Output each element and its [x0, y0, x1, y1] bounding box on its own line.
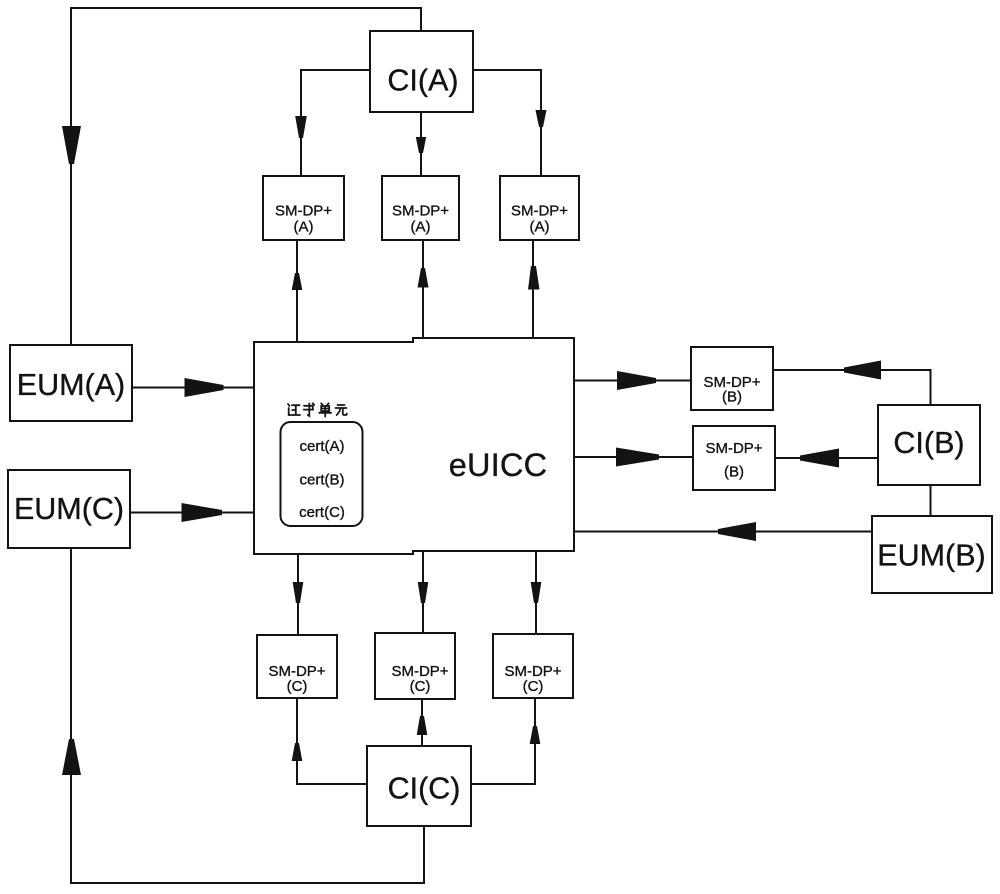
- box SM-DP+(C)3: [493, 634, 573, 698]
- svg-text:(A): (A): [411, 219, 431, 236]
- arrow up eUICC to SM-DP+(A)3: [528, 266, 540, 290]
- arrow right EUM(A) to eUICC: [185, 378, 224, 397]
- wire SM-DP+(C)3 to CI(C): [471, 698, 535, 784]
- box CI(A): [370, 31, 473, 112]
- box SM-DP+(A)1: [263, 176, 344, 240]
- wire EUM(B) to eUICC: [574, 531, 872, 533]
- box SM-DP+(B)1: [691, 347, 773, 410]
- wire CI(A) bottom to SM-DP+(A)2: [420, 112, 422, 176]
- wire CI(A) top to EUM(A) top loop: [71, 8, 421, 345]
- wire eUICC bottom to SM-DP+(C)1: [297, 554, 299, 635]
- svg-text:cert(B): cert(B): [300, 472, 345, 489]
- box certificate unit rounded: [281, 422, 363, 526]
- wire SM-DP+(B)1 to CI(B): [773, 370, 931, 405]
- arrow right EUM(C) to eUICC: [182, 503, 223, 522]
- box EUM(A): [10, 345, 132, 421]
- svg-text:SM-DP+: SM-DP+: [275, 203, 332, 220]
- svg-text:(C): (C): [410, 678, 431, 695]
- svg-text:(A): (A): [530, 219, 550, 236]
- label certificate-unit CJK "证书单元" drawn as paths: [288, 403, 347, 416]
- box SM-DP+(C)1: [257, 635, 337, 698]
- svg-text:CI(C): CI(C): [388, 772, 461, 806]
- svg-text:EUM(C): EUM(C): [14, 492, 124, 526]
- wire CI(A) right to SM-DP+(A)3: [473, 70, 541, 176]
- arrow left CI(B) to SM-DP+(B)2: [800, 449, 839, 468]
- wire eUICC bottom to SM-DP+(C)3: [535, 551, 537, 634]
- arrow up eUICC to SM-DP+(A)1: [292, 273, 303, 290]
- svg-text:SM-DP+: SM-DP+: [392, 203, 449, 220]
- svg-text:SM-DP+: SM-DP+: [511, 203, 568, 220]
- arrow down CI(A) to SM-DP+(A)2: [416, 137, 426, 153]
- box EUM(B): [872, 516, 992, 593]
- arrow left EUM(B) to eUICC: [718, 522, 756, 541]
- arrow down CI(A) to SM-DP+(A)3: [536, 110, 547, 127]
- svg-text:eUICC: eUICC: [449, 447, 548, 483]
- svg-text:(B): (B): [724, 464, 744, 481]
- wire SM-DP+(B)2 to CI(B): [775, 457, 878, 459]
- arrow up CI(C) to EUM(C) loop: [62, 739, 81, 775]
- svg-text:(B): (B): [722, 389, 742, 406]
- box SM-DP+(A)2: [382, 176, 459, 240]
- svg-text:cert(A): cert(A): [300, 438, 345, 455]
- wire CI(B) to EUM(B): [930, 485, 932, 516]
- box SM-DP+(A)3: [500, 176, 579, 240]
- wire SM-DP+(C)1 to CI(C): [297, 698, 367, 784]
- arrow right eUICC to SM-DP+(B)1: [617, 371, 656, 390]
- wire EUM(C) to eUICC: [130, 512, 254, 514]
- wire eUICC top to SM-DP+(A)3: [532, 240, 534, 338]
- arrow up CI(C) to SM-DP+(C)3: [530, 726, 541, 744]
- box SM-DP+(C)2: [375, 633, 455, 699]
- wire CI(A) left to SM-DP+(A)1: [301, 70, 370, 176]
- wire EUM(A) to eUICC: [132, 387, 254, 389]
- svg-text:(C): (C): [523, 678, 544, 695]
- box SM-DP+(B)2: [693, 426, 775, 490]
- arrow down eUICC to SM-DP+(C)2: [418, 582, 429, 603]
- arrow down eUICC to SM-DP+(C)3: [531, 582, 542, 603]
- arrow right eUICC to SM-DP+(B)2: [616, 448, 659, 467]
- box EUM(C): [8, 470, 130, 548]
- svg-text:SM-DP+: SM-DP+: [705, 440, 762, 457]
- arrow left CI(B) to SM-DP+(B)1: [844, 361, 881, 380]
- wire eUICC to SM-DP+(B)1: [574, 380, 691, 382]
- arrow up CI(C) to SM-DP+(C)1: [292, 743, 303, 761]
- svg-text:CI(A): CI(A): [387, 64, 458, 98]
- svg-text:EUM(B): EUM(B): [877, 539, 985, 573]
- arrow up eUICC to SM-DP+(A)2: [418, 268, 429, 288]
- svg-text:(A): (A): [294, 219, 314, 236]
- arrow down CI(A) to SM-DP+(A)1: [295, 116, 307, 138]
- wire eUICC bottom to SM-DP+(C)2: [422, 551, 424, 633]
- box CI(B): [878, 405, 980, 485]
- wire eUICC top to SM-DP+(A)2: [422, 240, 424, 338]
- svg-text:cert(C): cert(C): [299, 504, 345, 521]
- arrow down eUICC to SM-DP+(C)1: [293, 582, 304, 603]
- arrow down on CI(A)-EUM(A) loop: [62, 126, 81, 164]
- svg-text:(C): (C): [287, 678, 308, 695]
- arrow up CI(C) to SM-DP+(C)2: [417, 716, 428, 735]
- wire SM-DP+(C)2 to CI(C): [421, 699, 423, 746]
- svg-text:EUM(A): EUM(A): [17, 368, 125, 402]
- box eUICC: [254, 338, 574, 554]
- wire eUICC to SM-DP+(B)2: [574, 456, 693, 458]
- wire eUICC top to SM-DP+(A)1: [296, 240, 298, 342]
- svg-text:CI(B): CI(B): [893, 426, 964, 460]
- wire CI(C) bottom to EUM(C) bottom loop: [71, 548, 424, 883]
- box CI(C): [367, 746, 471, 826]
